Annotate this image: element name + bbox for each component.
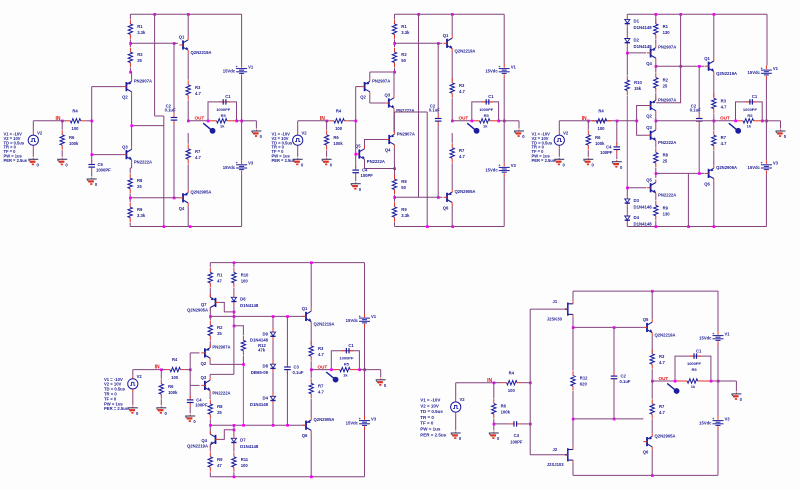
- wire c1 to R8: [129, 168, 131, 173]
- wire c3 right rail mid: [765, 80, 767, 121]
- wire c3 Q6 collector to bottom rail: [713, 182, 715, 227]
- svg-text:Q2: Q2: [122, 95, 128, 100]
- junction c2 Q4/Q5 emitter node: [393, 167, 396, 170]
- svg-text:IN: IN: [582, 116, 587, 122]
- svg-text:4.7: 4.7: [318, 352, 324, 357]
- svg-text:0.1uF: 0.1uF: [293, 370, 304, 375]
- wire c4 Q3 emitter to R8: [209, 394, 211, 399]
- svg-text:R7: R7: [195, 149, 201, 154]
- svg-text:1000PF: 1000PF: [479, 107, 494, 112]
- c3 feedback loop wire: [736, 102, 763, 121]
- wire c1 Q3 collector up to emitter join: [131, 126, 133, 147]
- wire c4 D7 to R11: [233, 446, 235, 452]
- svg-text:R12: R12: [580, 376, 588, 381]
- svg-text:1k: 1k: [747, 124, 752, 129]
- wire c1 C2 to Q4 base line: [173, 124, 175, 198]
- wire c4 D8 to D4: [272, 372, 274, 393]
- svg-text:100PF: 100PF: [195, 403, 208, 408]
- svg-text:R5: R5: [747, 113, 753, 118]
- svg-text:R11: R11: [241, 457, 249, 462]
- wire c3 Q1 base line: [656, 65, 705, 67]
- resistor R1 47: [208, 268, 223, 287]
- wire c4 Q3 collector up: [209, 374, 211, 377]
- wire c5 R3 to OUT: [651, 369, 653, 381]
- svg-text:R4: R4: [172, 357, 178, 362]
- junction c2 C2 / Q6 base line: [437, 196, 440, 199]
- svg-text:1k: 1k: [483, 124, 488, 129]
- svg-text:R6: R6: [595, 135, 601, 140]
- circuit 1: discrete complementary buffer amplifier (top-left): [4, 13, 263, 228]
- c5 loop right junction: [710, 380, 713, 383]
- junction c1 bottom rail / Q4 collector: [189, 225, 192, 228]
- battery V3 15Vdc c2: [485, 163, 516, 177]
- junction c5 bottom rail / Q6 collector: [651, 474, 654, 477]
- svg-text:47: 47: [217, 463, 222, 468]
- wire c2 right rail upper: [503, 14, 505, 64]
- wire c4 right rail upper: [364, 263, 366, 314]
- junction c3 IN node: [587, 120, 590, 123]
- svg-text:R3: R3: [721, 98, 727, 103]
- wire c5 right rail mid: [717, 345, 719, 381]
- junction c1 R8/R9 node: [129, 197, 132, 200]
- svg-text:Q1: Q1: [302, 306, 308, 311]
- svg-text:130: 130: [663, 30, 671, 35]
- svg-text:PN2222A: PN2222A: [134, 160, 152, 165]
- wire c5 R12 to node B: [572, 391, 574, 419]
- wire c2 bus to Q5 base: [355, 153, 357, 155]
- wire c1 rail to ground stub: [242, 120, 257, 122]
- junction c4 D7 / Q4 base: [233, 429, 236, 432]
- wire c3 Q5 emitter to R9: [655, 196, 657, 201]
- junction c3 R10 / D3 / Q5 base: [626, 187, 629, 190]
- wire c4 lower drive line to Q6 base: [210, 424, 305, 426]
- svg-text:Q6: Q6: [704, 181, 710, 186]
- junction c2 Q1 base / C2 branch: [437, 42, 440, 45]
- circuit 4: buffer amplifier with cascode bias and zener ladder (bottom-left): [104, 261, 387, 478]
- transistor Q4 Q2N2219A (NPN cascode): [210, 431, 219, 447]
- svg-text:C1: C1: [225, 94, 231, 99]
- source V2 pulse c3: [554, 130, 569, 148]
- resistor R3 4.7 c5: [650, 349, 665, 368]
- resistor R10 100: [232, 268, 249, 287]
- wire c4 R12 to node: [242, 356, 244, 365]
- junction c5 node line B / R12: [572, 418, 575, 421]
- capacitor C2 0.1uF c2: [435, 114, 442, 125]
- wire c1 jog to R8: [130, 167, 131, 169]
- svg-text:OUT: OUT: [459, 116, 469, 121]
- wire c3 C2 branch upper: [698, 66, 700, 114]
- resistor R8 25: [128, 174, 143, 193]
- wire c4 V2 to ground: [132, 392, 134, 405]
- voltage probe marker c3 OUT: [729, 123, 741, 134]
- svg-text:+: +: [498, 65, 500, 69]
- junction c2 R2 bottom node: [393, 71, 396, 74]
- wire c5 input line: [456, 382, 494, 384]
- wire c5 R6 to ground: [493, 419, 495, 431]
- svg-text:OUT: OUT: [318, 364, 328, 369]
- junction c4 lower drive line / D7: [233, 424, 236, 427]
- c4 loop right junction: [358, 368, 361, 371]
- wire c5 ground stub down: [735, 381, 737, 391]
- wire c2 mid column lower: [426, 112, 428, 227]
- svg-text:15Vdc: 15Vdc: [346, 421, 359, 426]
- circuit 2: buffer amplifier with complementary darlington drivers (top-middle): [272, 13, 526, 228]
- wire c3 V2 to input line: [558, 121, 560, 132]
- svg-text:V3: V3: [511, 163, 517, 168]
- svg-text:PN2907A: PN2907A: [372, 78, 390, 83]
- junction c2 bottom rail / Q6 collector: [451, 225, 454, 228]
- wire c4 Q7 collector down to drive line: [209, 308, 211, 317]
- transistor Q2 PN2907A (driver) c4: [201, 345, 231, 366]
- junction c3 input / base bus: [635, 120, 638, 123]
- ground 0 c3 output: [776, 130, 787, 140]
- ground 0 c4 R6: [156, 406, 167, 416]
- wire c2 OUT to loop: [452, 120, 472, 122]
- svg-text:15Vdc: 15Vdc: [346, 318, 359, 323]
- svg-text:Q2N2905A: Q2N2905A: [191, 190, 212, 195]
- svg-text:25: 25: [217, 410, 222, 415]
- wire c1 Q4 collector to bottom rail: [187, 206, 189, 227]
- wire c1 R1 to R2: [129, 39, 131, 47]
- svg-text:130: 130: [663, 211, 671, 216]
- transistor Q5 PN2222A (bias) c3: [646, 177, 676, 197]
- svg-text:1k: 1k: [343, 372, 348, 377]
- resistor R8 50 c2: [392, 175, 407, 194]
- wire c2 Q3 collector to node: [393, 72, 395, 95]
- svg-text:Q1: Q1: [443, 33, 449, 38]
- svg-text:15Vdc: 15Vdc: [223, 69, 236, 74]
- svg-text:V2: V2: [302, 130, 308, 135]
- capacitor C2 0.1uF c3: [696, 114, 703, 125]
- svg-text:3.3k: 3.3k: [137, 30, 146, 35]
- wire c2 mid column from rail: [418, 14, 420, 197]
- svg-text:V3: V3: [773, 161, 779, 166]
- wire c5 IN node to R6: [493, 383, 495, 399]
- junction c4 drive line / Q7 column: [209, 315, 212, 318]
- svg-text:0.1uF: 0.1uF: [620, 379, 631, 384]
- svg-text:47k: 47k: [258, 347, 266, 352]
- svg-text:0.1uF: 0.1uF: [165, 108, 176, 113]
- svg-text:50: 50: [401, 58, 406, 63]
- wire c2 to Q1 base pin: [439, 42, 443, 44]
- wire c2 Q5 emitter to node: [365, 168, 395, 170]
- wire c1 input bus to Q2 base: [92, 86, 123, 88]
- source V2 pulse parameters c1: [4, 132, 28, 163]
- wire c5 Q5 emitter to R3: [651, 336, 653, 354]
- transistor Q3 PN2222A (driver) c4: [201, 375, 231, 395]
- wire c2 R4 to bus: [349, 120, 356, 122]
- transistor Q3 PN2222A (NPN driver) c2: [385, 93, 415, 113]
- svg-text:R2: R2: [401, 52, 407, 57]
- wire c2 node to R8: [394, 165, 396, 180]
- svg-text:Q2N2219A: Q2N2219A: [716, 71, 737, 76]
- wire c5 gate bus vertical: [529, 309, 531, 455]
- transistor Q2 PN2907A (driver) c3: [646, 97, 676, 118]
- junction c3 Q4 collector node: [655, 65, 658, 68]
- junction c3 bottom rail / R9: [655, 225, 658, 228]
- svg-text:100: 100: [335, 126, 343, 131]
- wire c2 rail to R1: [394, 14, 396, 19]
- wire c4 right rail mid: [364, 328, 366, 370]
- wire c3 R3 to OUT: [713, 114, 715, 121]
- c4 resistor R5 1k: [331, 367, 359, 377]
- svg-text:R5: R5: [221, 113, 227, 118]
- c3 loop right junction: [761, 120, 764, 123]
- wire c2 V2 to input line: [297, 121, 299, 132]
- junction c5 node line A / C2: [613, 326, 616, 329]
- wire c2 Q2 emitter to Q3 base: [369, 95, 371, 103]
- wire c1 V2 to input line: [32, 121, 34, 132]
- wire c5 right rail lower: [717, 430, 719, 475]
- junction c5 rail / OUT line: [717, 380, 720, 383]
- wire c4 V+ top rail: [210, 262, 364, 264]
- junction c4 R12 tap: [233, 325, 236, 328]
- wire c1 Q2 emitter down: [131, 95, 133, 126]
- svg-text:R3: R3: [459, 83, 465, 88]
- wire c1 rail to R1: [129, 14, 131, 19]
- svg-text:D1N4148: D1N4148: [250, 402, 269, 407]
- wire c4 bus to Q3 base: [190, 384, 199, 386]
- ground 0 c3 R6: [583, 158, 594, 168]
- resistor R9 47 c4: [208, 452, 223, 471]
- svg-text:R7: R7: [459, 148, 465, 153]
- ground 0 c4 source: [128, 406, 139, 416]
- wire c4 R7 to Q6 emitter: [310, 399, 312, 417]
- wire c3 loop to rail: [762, 120, 766, 122]
- svg-text:R6: R6: [501, 404, 507, 409]
- transistor Q1 Q2N2219A (NPN output) c2: [443, 33, 476, 53]
- svg-text:R9: R9: [401, 207, 407, 212]
- c1 feedback loop wire: [208, 102, 237, 121]
- c2 feedback loop wire: [472, 102, 499, 121]
- wire c2 input line: [298, 120, 327, 122]
- svg-text:3.3k: 3.3k: [137, 213, 146, 218]
- wire c2 R1 to R2: [394, 39, 396, 47]
- wire c1 input bus vertical: [91, 87, 93, 155]
- transistor Q4 PN2907A (bias) c3: [646, 45, 676, 66]
- resistor R9 3.3k: [128, 203, 146, 222]
- battery V1 15Vdc c3: [748, 66, 779, 80]
- c1 loop right junction: [235, 120, 238, 123]
- junction c4 rail / OUT line: [363, 368, 366, 371]
- wire c1 V2 to ground: [32, 149, 34, 157]
- svg-text:R3: R3: [659, 354, 665, 359]
- svg-text:R3: R3: [318, 346, 324, 351]
- circuit 3: buffer amplifier with diode bias ladder (top-right): [532, 13, 787, 228]
- wire c4 Q4 base to D7: [219, 430, 234, 440]
- junction c3 top rail / R1: [655, 13, 658, 16]
- svg-text:+: +: [359, 417, 361, 421]
- resistor R7 4.7 c5: [650, 399, 665, 418]
- junction c3 rail / OUT line: [765, 120, 768, 123]
- svg-text:Q2N2219A: Q2N2219A: [187, 443, 208, 448]
- svg-text:DB65-09: DB65-09: [251, 370, 269, 375]
- wire c4 drive to D9: [272, 316, 274, 328]
- wire c5 C4 to gate bus: [521, 423, 530, 425]
- svg-text:25: 25: [137, 58, 142, 63]
- resistor R4 100 c4: [166, 357, 185, 380]
- junction c4 drive line / D6 column: [233, 315, 236, 318]
- junction c3 top rail / mid column: [679, 13, 682, 16]
- svg-text:C1: C1: [752, 94, 758, 99]
- junction c2 OUT node: [451, 120, 454, 123]
- battery V1 15Vdc: [223, 64, 254, 78]
- wire c4 R12 node down to lower drive line: [242, 364, 244, 425]
- JFET J2 J2SJ103: [547, 447, 573, 467]
- resistor R1 3.3k c2: [392, 20, 410, 39]
- svg-text:100PF: 100PF: [361, 173, 374, 178]
- wire c2 Q1 collector to rail: [451, 14, 453, 35]
- svg-text:Q3: Q3: [646, 125, 652, 130]
- junction c3 top rail / Q1 collector: [713, 13, 716, 16]
- svg-text:PN2222A: PN2222A: [658, 140, 676, 145]
- transistor Q2 PN2907A (PNP driver): [122, 78, 152, 99]
- svg-text:D1N4148: D1N4148: [634, 205, 653, 210]
- wire c1 C5 to ground: [91, 171, 93, 176]
- svg-text:PER = 2.5us: PER = 2.5us: [104, 406, 129, 411]
- svg-text:V3: V3: [725, 416, 731, 421]
- resistor R6 100k c3: [586, 130, 605, 149]
- voltage probe marker c4 OUT: [326, 372, 338, 383]
- svg-text:100: 100: [241, 463, 249, 468]
- svg-text:J2SJ103: J2SJ103: [547, 462, 564, 467]
- wire c3 V+ top rail: [627, 13, 767, 15]
- wire c2 R9 to bottom rail: [394, 222, 396, 226]
- svg-text:100: 100: [508, 388, 516, 393]
- wire c4 Q1 collector to rail: [310, 263, 312, 309]
- junction c4 bottom rail / R11: [233, 476, 236, 479]
- wire c1 node to Q2 collector: [130, 71, 131, 73]
- resistor R10 15k: [625, 76, 642, 95]
- svg-text:D2: D2: [634, 38, 640, 43]
- ground 0 c1 source: [28, 158, 39, 168]
- svg-text:4.7: 4.7: [195, 155, 201, 160]
- wire c4 R1 to Q7: [209, 288, 211, 298]
- wire c1 ground stub down: [255, 121, 257, 129]
- svg-text:Q2N2219A: Q2N2219A: [655, 332, 676, 337]
- junction c1 driver emitter node: [130, 124, 133, 127]
- wire c4 R12 tap jog: [234, 326, 244, 336]
- wire c4 drive line to D7: [233, 425, 235, 435]
- svg-text:Q4: Q4: [646, 61, 652, 66]
- junction c1 node R1/R2: [129, 42, 132, 45]
- svg-text:Q2N2905A: Q2N2905A: [455, 189, 476, 194]
- svg-text:0.1uF: 0.1uF: [690, 108, 701, 113]
- junction c4 IN node: [160, 368, 163, 371]
- wire c2 V+ top rail: [395, 13, 505, 15]
- wire c3 R9 to bottom rail: [655, 221, 657, 227]
- c3 resistor R5 1k: [736, 119, 763, 129]
- wire c5 right rail upper: [717, 291, 719, 331]
- wire c4 R4 to bus: [185, 369, 190, 371]
- junction c4 drive line / C3: [286, 315, 289, 318]
- junction c5 OUT node: [651, 380, 654, 383]
- wire c2 right rail mid2: [503, 121, 505, 163]
- svg-text:OUT: OUT: [195, 116, 205, 121]
- wire c4 rail to R10: [233, 263, 235, 268]
- svg-text:IN: IN: [155, 365, 160, 371]
- battery V1 15Vdc c5: [699, 331, 730, 345]
- junction c4 lower drive line / R12 column: [242, 424, 245, 427]
- svg-text:R5: R5: [484, 113, 490, 118]
- wire c1 down to Q2 collector pin: [131, 72, 133, 78]
- wire c4 Q4 emitter to R9: [209, 445, 211, 452]
- svg-text:100k: 100k: [333, 141, 343, 146]
- junction c3 D2 / R10 / Q4 base: [626, 52, 629, 55]
- svg-text:Q2N2219A: Q2N2219A: [191, 50, 212, 55]
- svg-text:R3: R3: [195, 85, 201, 90]
- battery V3 15Vdc c5: [699, 416, 730, 430]
- wire c2 right rail lower: [503, 177, 505, 227]
- svg-text:47: 47: [217, 279, 222, 284]
- svg-text:D6: D6: [240, 297, 246, 302]
- wire c5 node line A to Q5 base: [573, 326, 643, 328]
- svg-text:D4: D4: [634, 215, 640, 220]
- junction c4 OUT node: [310, 368, 313, 371]
- c3 loop left junction: [734, 120, 737, 123]
- wire c4 R8 to drive node: [209, 419, 211, 425]
- wire c1 loop to rail: [237, 120, 242, 122]
- resistor R3 4.7 c2: [450, 78, 465, 97]
- wire c5 IN to R4: [494, 382, 502, 384]
- wire c5 R4 to gate bus: [522, 382, 531, 384]
- wire c1 mid column lower: [163, 116, 165, 227]
- transistor Q5 PN2222A (NPN input) c2: [355, 144, 385, 164]
- wire c4 Q2 collector to R12 node: [210, 363, 243, 365]
- wire c3 Q2 collector to OUT line: [655, 114, 657, 121]
- wire c5 node B to J2 source: [572, 419, 574, 447]
- wire c3 Q2/Q3 base bus: [637, 106, 647, 136]
- svg-text:15k: 15k: [634, 86, 642, 91]
- capacitor C4 100PF c4: [187, 396, 194, 407]
- svg-text:C1: C1: [488, 94, 494, 99]
- svg-text:Q4: Q4: [179, 206, 185, 211]
- battery V1 15Vdc c2: [485, 64, 516, 78]
- svg-text:+: +: [236, 65, 238, 69]
- wire c3 R2 to Q2 emitter: [655, 93, 657, 100]
- svg-text:4.7: 4.7: [721, 104, 727, 109]
- svg-text:+: +: [761, 161, 763, 165]
- svg-text:Q7: Q7: [201, 302, 207, 307]
- resistor R6 100k c5: [492, 399, 511, 418]
- wire c5 V2 to input line: [455, 383, 457, 399]
- wire c1 R4 to bus: [85, 120, 92, 122]
- c1 resistor R5 1k: [208, 119, 237, 129]
- svg-text:D4: D4: [263, 396, 269, 401]
- junction c3 bottom rail / Q6 collector: [713, 225, 716, 228]
- svg-text:D3: D3: [634, 198, 640, 203]
- c4 feedback loop wire: [331, 351, 359, 370]
- transistor Q1 Q2N2219A (NPN output): [179, 35, 212, 55]
- wire c4 OUT to loop: [311, 369, 331, 371]
- ground 0 c3 source: [554, 158, 565, 168]
- ground 0 c5 output: [731, 392, 742, 402]
- c2 resistor R5 1k: [472, 119, 499, 129]
- junction c1 C2 / Q4 base line: [173, 197, 176, 200]
- resistor R4 100 c3: [592, 108, 611, 131]
- svg-text:25: 25: [663, 159, 668, 164]
- c5 resistor R5 1k: [675, 379, 711, 389]
- wire c2 bus to Q2 base: [356, 86, 361, 88]
- wire c2 OUT to R7: [451, 133, 453, 143]
- wire c1 IN node to R6: [61, 121, 63, 130]
- svg-text:D1N4148: D1N4148: [240, 444, 259, 449]
- wire c2 Q3 emitter down to Q4: [393, 111, 395, 132]
- wire c1 R7 to Q4 emitter: [187, 164, 189, 189]
- svg-text:100k: 100k: [168, 390, 178, 395]
- resistor R12 620: [571, 371, 588, 390]
- wire c3 Q3 collector to OUT line: [655, 121, 657, 127]
